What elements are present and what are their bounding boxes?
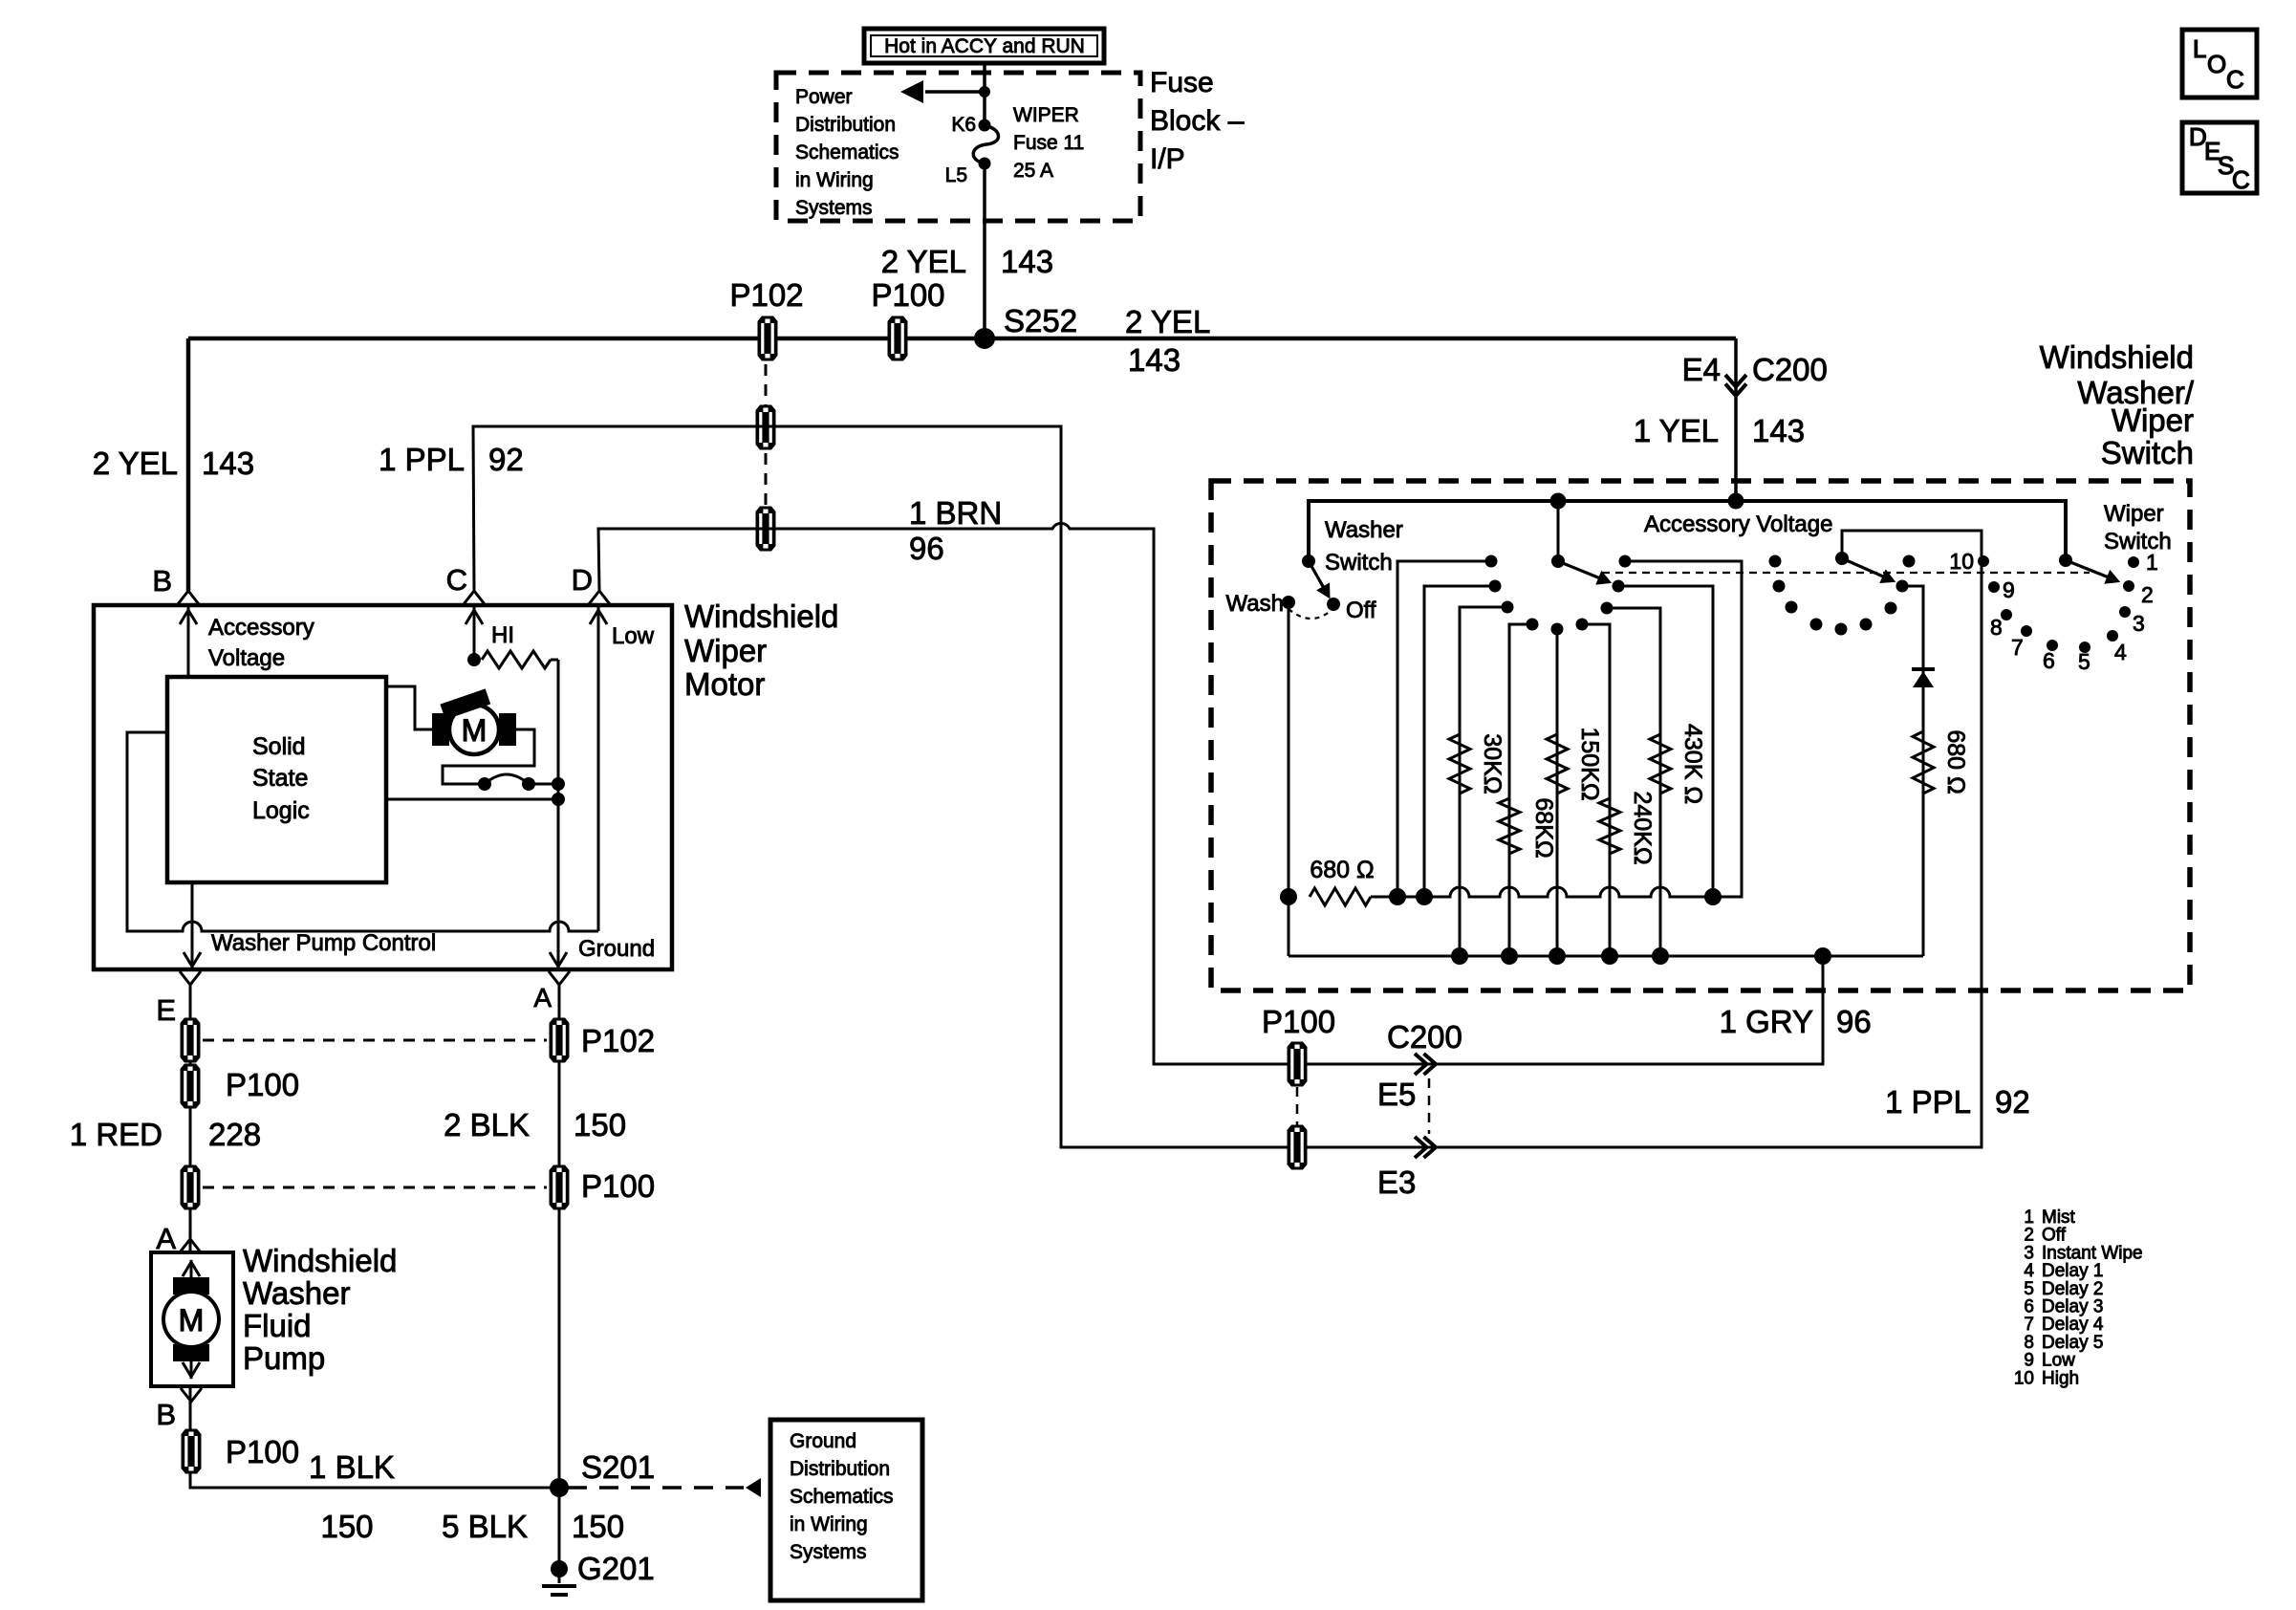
- svg-text:1 YEL: 1 YEL: [1634, 413, 1719, 448]
- svg-text:1 BRN: 1 BRN: [909, 495, 1002, 531]
- svg-text:in Wiring: in Wiring: [790, 1513, 868, 1535]
- svg-text:Switch: Switch: [1325, 550, 1393, 576]
- svg-text:2 BLK: 2 BLK: [444, 1107, 530, 1142]
- svg-text:B: B: [156, 1398, 176, 1431]
- svg-text:High: High: [2042, 1368, 2079, 1388]
- svg-text:1 BLK: 1 BLK: [309, 1449, 395, 1485]
- svg-text:Distribution: Distribution: [795, 114, 896, 136]
- svg-text:Windshield: Windshield: [684, 598, 838, 634]
- svg-text:143: 143: [202, 446, 254, 481]
- svg-text:Ground: Ground: [578, 936, 655, 962]
- svg-text:143: 143: [1128, 342, 1180, 378]
- svg-text:1: 1: [2146, 550, 2158, 575]
- svg-text:8: 8: [1990, 615, 2003, 640]
- svg-text:1 GRY: 1 GRY: [1720, 1004, 1813, 1039]
- svg-text:Systems: Systems: [795, 197, 873, 219]
- svg-text:Washer: Washer: [243, 1275, 350, 1311]
- svg-text:430K Ω: 430K Ω: [1679, 724, 1706, 804]
- svg-text:Hot in ACCY and RUN: Hot in ACCY and RUN: [884, 35, 1085, 57]
- svg-text:92: 92: [488, 442, 524, 477]
- svg-text:2 YEL: 2 YEL: [881, 244, 966, 279]
- svg-text:S252: S252: [1004, 303, 1077, 338]
- svg-text:25 A: 25 A: [1013, 160, 1053, 182]
- svg-text:C200: C200: [1387, 1019, 1462, 1055]
- svg-text:Off: Off: [1346, 598, 1376, 623]
- svg-text:5 BLK: 5 BLK: [442, 1509, 528, 1544]
- svg-text:143: 143: [1752, 413, 1805, 448]
- svg-text:Wiper: Wiper: [684, 633, 767, 668]
- svg-text:96: 96: [1836, 1004, 1872, 1039]
- svg-text:State: State: [252, 765, 308, 792]
- svg-text:Switch: Switch: [2104, 529, 2172, 555]
- svg-text:Logic: Logic: [252, 797, 310, 824]
- svg-text:M: M: [462, 713, 487, 748]
- svg-text:C: C: [2232, 165, 2250, 194]
- svg-text:Windshield: Windshield: [2040, 339, 2194, 375]
- svg-text:E: E: [156, 993, 176, 1027]
- svg-text:Systems: Systems: [790, 1541, 867, 1563]
- svg-text:G201: G201: [577, 1551, 655, 1586]
- svg-text:4: 4: [2114, 640, 2127, 664]
- svg-text:D: D: [572, 563, 593, 597]
- svg-text:1 PPL: 1 PPL: [379, 442, 465, 477]
- svg-text:Switch: Switch: [2101, 435, 2194, 470]
- svg-text:Power: Power: [795, 86, 853, 108]
- svg-text:P100: P100: [871, 277, 944, 313]
- svg-text:3: 3: [2133, 611, 2145, 636]
- svg-text:30KΩ: 30KΩ: [1479, 733, 1505, 794]
- svg-text:143: 143: [1001, 244, 1053, 279]
- svg-text:Windshield: Windshield: [243, 1243, 397, 1278]
- svg-text:P102: P102: [581, 1023, 655, 1058]
- svg-text:P102: P102: [729, 277, 803, 313]
- svg-text:HI: HI: [491, 622, 514, 648]
- svg-text:C: C: [446, 563, 467, 597]
- svg-text:C200: C200: [1752, 352, 1828, 387]
- svg-text:Low: Low: [612, 623, 655, 649]
- svg-text:Ground: Ground: [790, 1430, 856, 1452]
- svg-text:150KΩ: 150KΩ: [1576, 727, 1603, 800]
- svg-text:Motor: Motor: [684, 666, 765, 702]
- svg-text:A: A: [156, 1222, 176, 1255]
- svg-text:Voltage: Voltage: [208, 645, 285, 671]
- svg-text:9: 9: [2003, 577, 2015, 602]
- svg-text:Wash: Wash: [1226, 591, 1284, 617]
- svg-text:P100: P100: [581, 1168, 655, 1204]
- svg-text:L: L: [2193, 34, 2206, 63]
- svg-text:150: 150: [320, 1509, 373, 1544]
- svg-text:2 YEL: 2 YEL: [1125, 304, 1210, 339]
- svg-text:2: 2: [2141, 582, 2154, 607]
- svg-text:K6: K6: [951, 114, 976, 136]
- svg-text:Washer: Washer: [1325, 517, 1403, 543]
- svg-text:Washer Pump Control: Washer Pump Control: [211, 930, 436, 956]
- svg-text:1 PPL: 1 PPL: [1885, 1084, 1971, 1120]
- svg-text:O: O: [2207, 50, 2226, 78]
- svg-text:680 Ω: 680 Ω: [1310, 857, 1374, 883]
- svg-text:in Wiring: in Wiring: [795, 169, 874, 191]
- svg-text:S201: S201: [581, 1449, 655, 1485]
- svg-text:A: A: [533, 983, 552, 1012]
- svg-text:7: 7: [2011, 635, 2024, 660]
- svg-text:92: 92: [1995, 1084, 2030, 1120]
- svg-text:1 RED: 1 RED: [70, 1117, 162, 1152]
- svg-text:68KΩ: 68KΩ: [1530, 797, 1557, 858]
- svg-text:C: C: [2226, 65, 2244, 94]
- svg-text:Accessory Voltage: Accessory Voltage: [1644, 511, 1832, 537]
- svg-text:240KΩ: 240KΩ: [1629, 791, 1656, 864]
- svg-text:Fluid: Fluid: [243, 1308, 312, 1343]
- svg-text:Pump: Pump: [243, 1340, 325, 1376]
- svg-text:Accessory: Accessory: [208, 615, 314, 641]
- svg-text:Schematics: Schematics: [795, 141, 899, 163]
- svg-text:10: 10: [1949, 549, 1974, 574]
- svg-text:E3: E3: [1377, 1164, 1416, 1200]
- svg-text:96: 96: [909, 531, 944, 566]
- svg-text:E4: E4: [1682, 352, 1721, 387]
- svg-text:Solid: Solid: [252, 733, 306, 760]
- svg-text:P100: P100: [1262, 1004, 1335, 1039]
- svg-text:E5: E5: [1377, 1077, 1416, 1112]
- svg-text:Fuse 11: Fuse 11: [1013, 132, 1084, 154]
- svg-text:5: 5: [2078, 649, 2090, 674]
- svg-text:L5: L5: [945, 164, 967, 186]
- svg-text:Wiper: Wiper: [2104, 501, 2164, 527]
- svg-text:M: M: [179, 1303, 205, 1338]
- svg-text:Block –: Block –: [1150, 105, 1245, 137]
- svg-text:Wiper: Wiper: [2112, 402, 2194, 438]
- svg-text:10: 10: [2014, 1368, 2034, 1388]
- svg-text:2 YEL: 2 YEL: [93, 446, 178, 481]
- svg-text:I/P: I/P: [1150, 143, 1185, 175]
- svg-text:228: 228: [208, 1117, 261, 1152]
- svg-text:150: 150: [572, 1509, 624, 1544]
- svg-text:680 Ω: 680 Ω: [1942, 729, 1969, 794]
- svg-text:6: 6: [2043, 648, 2055, 673]
- svg-text:Distribution: Distribution: [790, 1458, 890, 1480]
- svg-text:P100: P100: [226, 1067, 299, 1102]
- svg-text:WIPER: WIPER: [1013, 104, 1079, 126]
- svg-text:P100: P100: [226, 1434, 299, 1469]
- svg-text:150: 150: [574, 1107, 626, 1142]
- svg-text:Schematics: Schematics: [790, 1486, 894, 1508]
- svg-text:B: B: [152, 564, 172, 598]
- svg-text:Fuse: Fuse: [1150, 67, 1214, 98]
